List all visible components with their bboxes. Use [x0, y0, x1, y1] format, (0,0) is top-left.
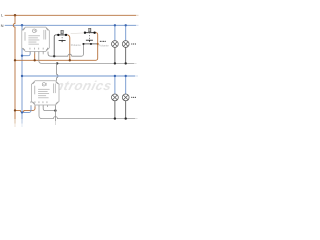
wire blue branch to module 1 N terminal	[22, 52, 30, 56]
node brown junction module 2	[14, 109, 16, 111]
wire pushbutton 2 lamp rail	[83, 43, 97, 45]
wire blue lower distribution line	[22, 75, 135, 77]
lamp E2	[122, 24, 129, 65]
node N junction	[21, 24, 24, 27]
wire blue branch into module 2	[22, 106, 31, 113]
node continuation dots pushbutton side	[100, 41, 106, 42]
wire module 2 output continuation vertical	[54, 106, 56, 121]
node continuation dots lower lamps	[131, 97, 136, 98]
wire N line	[5, 24, 136, 26]
wire blue vertical drop	[21, 25, 23, 119]
relay module U2 terminals	[31, 105, 55, 107]
node blue junction at module 1	[21, 55, 23, 57]
wire brown vertical drop with hop over N	[13, 15, 15, 119]
wire gray line A from module 1 to pushbuttons	[48, 45, 83, 57]
wire L line	[5, 14, 136, 16]
svg-text:N: N	[1, 23, 4, 28]
wire module 2 aux link	[43, 106, 55, 111]
node junction line B to module 2	[56, 62, 58, 64]
wire module 2 input vertical with hop over blue line	[57, 63, 58, 80]
relay module U1 terminals	[30, 52, 48, 54]
wire brown branch into module 2 with hop over blue vertical	[15, 106, 35, 113]
pushbutton S1	[57, 30, 67, 42]
wire module 1 L terminal drop	[34, 52, 36, 61]
wire orange riser pushbutton 1	[66, 35, 70, 61]
wire pushbutton 1 left lead	[54, 35, 58, 56]
node junction aux	[54, 109, 56, 111]
svg-text:Pulsante: Pulsante	[99, 44, 110, 48]
node brown junction on vertical	[14, 59, 16, 61]
svg-text:Pulsante: Pulsante	[71, 43, 82, 47]
wire gray line C from module 2 to lower lamps	[39, 106, 135, 119]
relay module U1	[22, 27, 50, 51]
node blue junction lower line	[21, 75, 23, 77]
lamp E4	[122, 75, 129, 120]
lamp E3	[112, 75, 119, 120]
node blue junction module 2	[21, 111, 23, 113]
node orange junction module 1	[34, 59, 36, 61]
wire orange L distribution line	[15, 33, 98, 61]
relay module U2	[31, 81, 59, 105]
node orange junction pushbutton riser	[69, 59, 71, 61]
lamp E1	[112, 24, 119, 65]
pushbutton S2	[84, 28, 96, 41]
wire faint link between pushbuttons	[71, 32, 85, 35]
wire gray line B from module 1 to upper lamps	[39, 52, 134, 64]
node junction line A	[53, 55, 55, 57]
wire module 1 spare terminal stub	[42, 52, 44, 55]
node continuation dots upper lamps	[131, 43, 136, 44]
node L junction	[14, 14, 17, 16]
